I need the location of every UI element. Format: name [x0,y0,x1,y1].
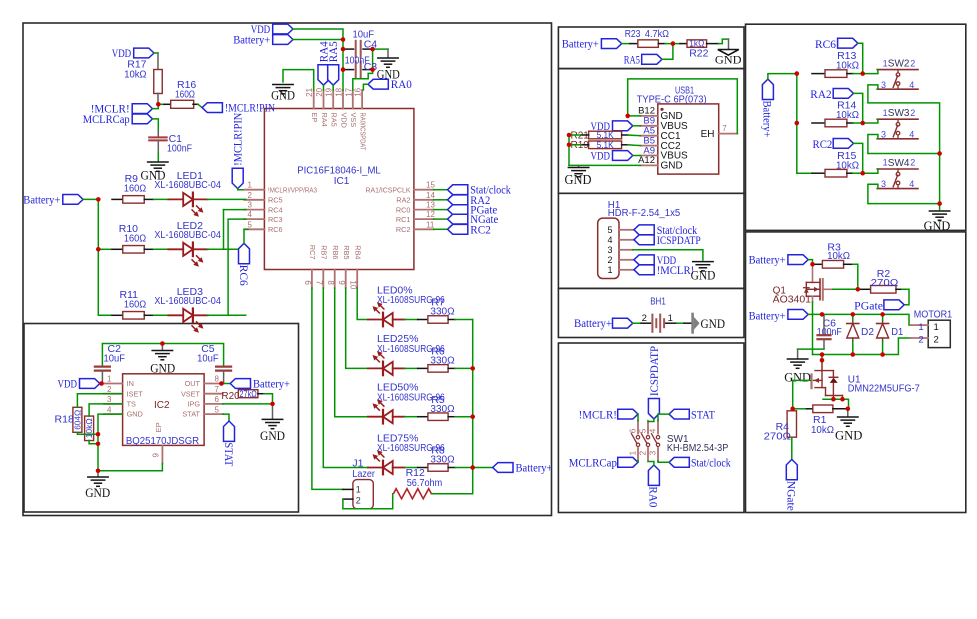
svg-text:IPG: IPG [187,400,200,409]
svg-text:5: 5 [215,405,220,414]
svg-text:AO3401: AO3401 [773,295,812,306]
svg-text:RA0/ICSPDAT: RA0/ICSPDAT [358,113,367,151]
svg-text:330Ω: 330Ω [430,355,454,367]
svg-text:RB7: RB7 [320,245,329,259]
svg-text:RC2: RC2 [813,139,833,151]
svg-text:VSET: VSET [181,389,201,398]
svg-text:10kΩ: 10kΩ [827,250,850,262]
svg-text:19: 19 [325,87,334,96]
svg-text:16: 16 [354,87,363,96]
svg-text:3: 3 [881,129,886,139]
svg-text:RB6: RB6 [331,245,340,259]
svg-text:13: 13 [426,201,435,210]
svg-text:ICSPDATP: ICSPDATP [649,346,661,396]
svg-text:Battery+: Battery+ [233,35,270,47]
svg-text:1: 1 [934,322,939,333]
svg-text:Battery+: Battery+ [516,463,553,475]
svg-text:RC0: RC0 [396,205,411,214]
svg-text:5: 5 [638,428,648,433]
svg-text:Battery+: Battery+ [253,379,290,391]
svg-text:RC1: RC1 [396,215,411,224]
svg-text:GND: GND [565,172,592,187]
svg-text:DMN22M5UFG-7: DMN22M5UFG-7 [848,384,920,395]
svg-text:VDD: VDD [58,379,78,391]
svg-text:Battery+: Battery+ [749,311,786,323]
svg-text:!MCLR!/VPP/RA3: !MCLR!/VPP/RA3 [268,186,317,195]
svg-text:EH: EH [701,129,715,140]
svg-text:330Ω: 330Ω [430,306,454,318]
svg-text:PGate: PGate [854,300,883,312]
svg-text:RB5: RB5 [342,245,351,259]
svg-text:RC6: RC6 [815,39,836,51]
svg-text:RC3: RC3 [268,215,283,224]
svg-text:330Ω: 330Ω [430,403,454,415]
svg-text:1: 1 [356,484,361,494]
svg-text:R19: R19 [571,140,590,151]
svg-text:4: 4 [107,405,112,414]
svg-text:RA2: RA2 [810,89,832,101]
svg-text:GND: GND [691,267,716,282]
svg-text:EP: EP [310,113,319,123]
svg-text:3: 3 [881,179,886,189]
svg-text:3: 3 [881,80,886,90]
svg-text:10uF: 10uF [104,352,126,364]
svg-text:2: 2 [918,335,923,346]
svg-text:RA0: RA0 [647,486,659,507]
svg-text:RA5: RA5 [624,54,640,66]
svg-text:Battery+: Battery+ [749,255,786,267]
svg-text:10kΩ: 10kΩ [84,418,94,438]
svg-text:STAT: STAT [182,410,200,419]
svg-text:27kΩ: 27kΩ [239,389,257,400]
svg-text:4: 4 [248,210,253,219]
svg-text:3: 3 [648,451,658,456]
svg-text:2: 2 [607,255,612,265]
svg-text:VDD: VDD [591,151,611,163]
svg-text:RA0: RA0 [391,79,412,91]
svg-text:10kΩ: 10kΩ [836,60,859,72]
svg-text:6: 6 [303,280,312,285]
svg-text:R20: R20 [221,391,240,402]
svg-text:10kΩ: 10kΩ [124,69,146,81]
svg-text:RC6: RC6 [268,225,283,234]
svg-text:100nF: 100nF [167,142,192,154]
svg-text:2: 2 [910,58,915,68]
svg-text:160Ω: 160Ω [124,232,146,244]
svg-text:EP: EP [154,422,163,432]
svg-text:!MCLR!: !MCLR! [579,409,617,421]
svg-text:D2: D2 [861,326,874,338]
svg-text:Battery+: Battery+ [574,318,612,330]
svg-text:14: 14 [426,191,435,200]
svg-text:1: 1 [607,265,612,275]
svg-text:1: 1 [628,451,638,456]
svg-text:RC2: RC2 [396,225,411,234]
svg-text:11: 11 [426,220,435,229]
svg-text:604Ω: 604Ω [72,410,82,430]
svg-text:OUT: OUT [185,379,201,388]
svg-text:A12: A12 [638,155,655,166]
svg-text:3: 3 [248,201,253,210]
svg-text:MOTOR1: MOTOR1 [914,309,953,321]
svg-text:10kΩ: 10kΩ [836,109,859,121]
svg-text:XL-1608UBC-04: XL-1608UBC-04 [154,229,221,241]
svg-text:MCLRCap: MCLRCap [83,114,130,126]
svg-text:Stat/clock: Stat/clock [691,458,731,470]
svg-text:RA5: RA5 [328,41,340,62]
svg-text:GND: GND [715,54,742,66]
svg-text:RC2: RC2 [470,224,491,236]
svg-text:R22: R22 [689,48,708,60]
svg-text:XL-1608UBC-04: XL-1608UBC-04 [154,295,221,307]
svg-text:160Ω: 160Ω [124,182,146,194]
svg-text:KH-BM2.54-3P: KH-BM2.54-3P [667,443,729,454]
svg-text:56.7ohm: 56.7ohm [407,477,443,489]
svg-text:8: 8 [215,375,220,384]
svg-text:IN: IN [127,379,134,388]
svg-text:RB4: RB4 [354,245,363,259]
svg-text:R18: R18 [55,414,74,426]
svg-text:ISET: ISET [127,389,144,398]
svg-text:STAT: STAT [222,442,234,466]
svg-text:3: 3 [607,245,612,255]
svg-text:Battery+: Battery+ [562,39,599,51]
svg-text:5: 5 [607,225,612,235]
svg-text:9: 9 [337,280,346,285]
svg-text:RC7: RC7 [308,245,317,260]
svg-text:10: 10 [348,280,357,289]
svg-text:Lazer: Lazer [352,468,375,480]
svg-text:6: 6 [215,395,220,404]
svg-text:270Ω: 270Ω [871,277,899,289]
svg-text:C3: C3 [364,61,378,73]
svg-text:8: 8 [326,280,335,285]
svg-text:GND: GND [127,410,143,419]
svg-text:RA1/ICSPCLK: RA1/ICSPCLK [366,186,411,195]
svg-text:1: 1 [248,181,253,190]
svg-text:RC4: RC4 [268,205,283,214]
svg-text:21: 21 [305,87,314,96]
svg-text:5: 5 [248,220,253,229]
svg-text:1: 1 [107,375,112,384]
svg-text:10kΩ: 10kΩ [811,424,834,436]
svg-text:BH1: BH1 [650,296,666,308]
svg-text:VDD: VDD [339,113,348,128]
svg-text:4: 4 [909,129,914,139]
svg-text:2: 2 [248,191,253,200]
svg-text:NGate: NGate [785,481,797,511]
svg-text:2: 2 [642,313,647,324]
svg-text:18: 18 [335,87,344,96]
svg-text:!MCLR!: !MCLR! [657,265,695,277]
svg-text:GND: GND [85,485,110,500]
svg-text:RA4: RA4 [320,113,329,127]
svg-text:7: 7 [722,124,727,133]
svg-text:IC2: IC2 [154,400,170,411]
svg-text:3: 3 [107,395,112,404]
svg-text:HDR-F-2.54_1x5: HDR-F-2.54_1x5 [608,208,681,219]
svg-text:5.1K: 5.1K [597,140,615,151]
svg-text:10uF: 10uF [197,352,219,364]
svg-text:9: 9 [152,453,161,458]
svg-text:TS: TS [127,400,136,409]
svg-text:17: 17 [344,87,353,96]
svg-text:2: 2 [638,451,648,456]
svg-text:R23: R23 [625,28,641,40]
svg-text:GND: GND [150,361,175,376]
svg-text:PIC16F18046-I_ML: PIC16F18046-I_ML [297,165,381,177]
svg-text:GND: GND [661,161,683,172]
svg-text:2: 2 [356,495,361,505]
svg-text:2: 2 [934,335,939,346]
svg-text:330Ω: 330Ω [430,454,454,466]
svg-text:15: 15 [426,181,435,190]
svg-text:IC1: IC1 [334,176,350,187]
svg-text:4.7kΩ: 4.7kΩ [645,28,669,40]
svg-text:SW2: SW2 [888,59,910,70]
svg-text:4: 4 [909,80,914,90]
svg-text:TYPE-C 6P(073): TYPE-C 6P(073) [637,93,707,105]
svg-text:VSS: VSS [349,113,358,128]
svg-text:GND: GND [701,316,726,331]
svg-text:1: 1 [668,313,673,324]
svg-text:RC5: RC5 [268,196,283,205]
svg-text:D1: D1 [891,326,903,338]
svg-text:Battery+: Battery+ [23,194,60,206]
svg-text:!MCLR!PIN: !MCLR!PIN [225,103,276,115]
svg-text:Battery+: Battery+ [761,101,773,138]
svg-text:7: 7 [215,385,220,394]
svg-text:SW4: SW4 [888,158,910,169]
svg-text:2: 2 [910,108,915,118]
svg-text:!MCLR!PIN: !MCLR!PIN [233,112,245,166]
svg-text:20: 20 [315,87,324,96]
svg-text:160Ω: 160Ω [175,89,195,101]
svg-text:4: 4 [607,235,612,245]
svg-text:1: 1 [918,322,923,333]
svg-text:GND: GND [260,428,285,443]
svg-text:12: 12 [426,210,435,219]
svg-text:SW3: SW3 [888,108,910,119]
svg-text:2: 2 [910,158,915,168]
svg-text:RA5: RA5 [330,113,339,127]
svg-text:6: 6 [628,428,638,433]
svg-text:GND: GND [784,370,811,385]
svg-text:4: 4 [909,179,914,189]
svg-text:MCLRCap: MCLRCap [569,458,617,470]
svg-text:10kΩ: 10kΩ [836,159,859,171]
svg-text:XL-1608UBC-04: XL-1608UBC-04 [154,179,221,191]
svg-text:270Ω: 270Ω [764,431,792,443]
svg-text:160Ω: 160Ω [124,298,146,310]
svg-text:RC6: RC6 [237,265,249,286]
svg-text:4: 4 [648,428,658,433]
svg-text:7: 7 [315,280,324,285]
svg-text:RA2: RA2 [396,196,410,205]
svg-text:GND: GND [835,428,862,443]
svg-text:GND: GND [271,87,295,102]
svg-text:ICSPDATP: ICSPDATP [657,235,701,247]
svg-text:2: 2 [107,385,112,394]
svg-text:GND: GND [924,218,951,233]
svg-text:STAT: STAT [691,409,715,421]
